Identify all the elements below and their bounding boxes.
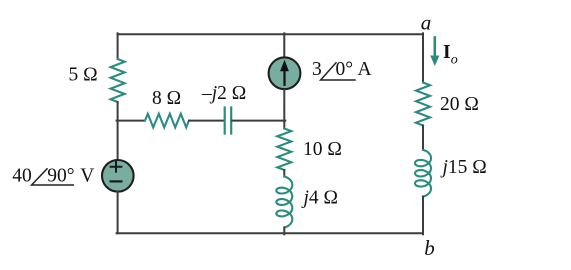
wire right branch bottom stub <box>422 197 424 235</box>
voltage source V1 circle <box>102 160 134 192</box>
current source I1 circle <box>269 57 301 89</box>
angle symbol for 3/0 <box>321 63 355 80</box>
wire middle branch between resistor and inductor <box>283 170 285 177</box>
svg-text:A: A <box>358 59 372 80</box>
wire left branch mid stub <box>117 102 119 160</box>
inductor j15 <box>415 150 431 197</box>
wire middle branch top stub <box>283 33 285 58</box>
wire middle horizontal left segment <box>117 120 145 122</box>
capacitor -j2 plates <box>225 108 232 134</box>
wire middle branch bottom stub <box>283 228 285 235</box>
wire middle horizontal between resistor and capacitor <box>189 120 224 122</box>
wire bottom from source branch to node b <box>117 232 423 234</box>
svg-text:j4 Ω: j4 Ω <box>301 188 339 209</box>
wire top from node above source to node a <box>118 33 423 35</box>
svg-text:3: 3 <box>312 59 322 80</box>
wire middle horizontal right segment <box>232 120 285 122</box>
current Io arrow <box>433 38 436 59</box>
svg-text:10 Ω: 10 Ω <box>303 139 342 160</box>
svg-text:–j2 Ω: –j2 Ω <box>201 83 246 104</box>
svg-text:V: V <box>80 165 94 186</box>
wire middle branch between source and middle wire <box>283 90 285 129</box>
resistor 5ohm <box>111 59 125 102</box>
wire right branch top stub node a <box>422 33 424 82</box>
svg-text:5 Ω: 5 Ω <box>69 65 98 86</box>
svg-text:90°: 90° <box>47 165 74 186</box>
svg-text:8 Ω: 8 Ω <box>152 88 181 109</box>
inductor j4 <box>276 177 292 228</box>
svg-text:j15 Ω: j15 Ω <box>440 157 487 178</box>
current source arrow <box>283 68 285 85</box>
resistor 8ohm <box>145 114 189 128</box>
resistor 20ohm <box>416 83 430 126</box>
voltage source plus sign <box>111 162 122 172</box>
voltage source minus sign <box>111 180 122 182</box>
wire left branch top stub <box>117 33 119 59</box>
svg-text:a: a <box>421 11 432 35</box>
resistor 10ohm <box>277 129 291 171</box>
angle symbol for 40/90 <box>32 169 74 185</box>
svg-text:b: b <box>424 236 435 260</box>
svg-text:I: I <box>443 42 451 63</box>
svg-text:0°: 0° <box>336 59 354 80</box>
wire right branch between resistor and inductor <box>422 126 424 151</box>
wire left branch bottom stub <box>117 191 119 233</box>
svg-text:o: o <box>451 53 458 68</box>
svg-text:40: 40 <box>12 165 32 186</box>
svg-text:20 Ω: 20 Ω <box>440 94 479 115</box>
